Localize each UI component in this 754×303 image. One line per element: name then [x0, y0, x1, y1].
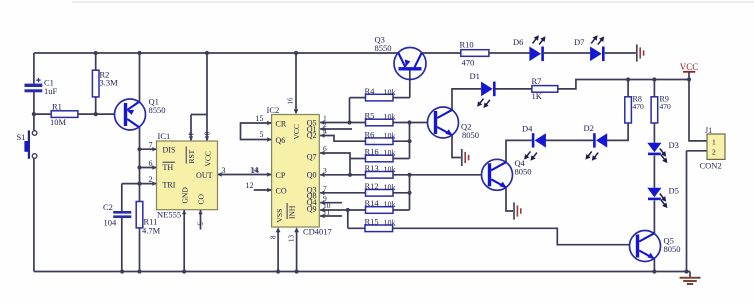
svg-text:13: 13 — [288, 235, 296, 243]
svg-text:D7: D7 — [574, 37, 584, 47]
svg-text:NE555: NE555 — [157, 210, 181, 220]
svg-text:IC2: IC2 — [267, 105, 280, 115]
svg-text:10k: 10k — [384, 131, 396, 140]
svg-text:2: 2 — [149, 175, 153, 184]
svg-text:5: 5 — [196, 222, 204, 226]
svg-text:5: 5 — [260, 130, 264, 139]
svg-text:11: 11 — [323, 207, 330, 216]
svg-text:CR: CR — [276, 119, 287, 128]
svg-text:R10: R10 — [460, 40, 474, 50]
svg-text:3: 3 — [222, 166, 226, 175]
svg-text:CD4017: CD4017 — [303, 227, 332, 237]
svg-text:CP: CP — [276, 171, 286, 180]
svg-text:10k: 10k — [384, 219, 396, 228]
svg-text:8050: 8050 — [462, 130, 479, 140]
svg-text:10k: 10k — [384, 183, 396, 192]
svg-text:Q7: Q7 — [307, 153, 317, 162]
svg-text:R6: R6 — [365, 129, 375, 139]
svg-text:10M: 10M — [50, 117, 67, 127]
svg-text:8050: 8050 — [515, 167, 532, 177]
svg-text:S1: S1 — [17, 132, 26, 142]
svg-text:10k: 10k — [384, 165, 396, 174]
svg-text:GND: GND — [180, 187, 189, 204]
svg-text:R4: R4 — [365, 86, 376, 96]
svg-text:104: 104 — [104, 218, 118, 228]
svg-text:J1: J1 — [705, 126, 712, 135]
svg-text:IC1: IC1 — [158, 131, 171, 141]
svg-text:4.7M: 4.7M — [142, 226, 161, 236]
svg-text:4: 4 — [323, 127, 327, 136]
svg-text:R5: R5 — [365, 111, 375, 121]
svg-text:3: 3 — [323, 166, 327, 175]
svg-text:470: 470 — [660, 102, 672, 111]
svg-text:CO: CO — [197, 193, 206, 204]
svg-text:TH: TH — [163, 163, 174, 172]
svg-text:D1: D1 — [470, 71, 480, 81]
svg-text:10k: 10k — [384, 200, 396, 209]
svg-text:Q9: Q9 — [307, 204, 317, 213]
svg-text:OUT: OUT — [196, 171, 213, 180]
svg-text:VCC: VCC — [292, 124, 301, 139]
svg-text:6: 6 — [149, 159, 153, 168]
svg-text:R14: R14 — [365, 198, 380, 208]
svg-text:3.3M: 3.3M — [100, 78, 119, 88]
svg-text:470: 470 — [633, 102, 645, 111]
svg-text:CO: CO — [276, 186, 287, 195]
svg-text:7: 7 — [323, 184, 327, 193]
svg-text:D4: D4 — [522, 124, 533, 134]
svg-text:D2: D2 — [584, 123, 594, 133]
svg-text:TRI: TRI — [163, 180, 176, 189]
svg-text:8550: 8550 — [149, 105, 166, 115]
svg-text:10k: 10k — [384, 113, 396, 122]
svg-text:8550: 8550 — [375, 43, 392, 53]
svg-text:8050: 8050 — [664, 244, 681, 254]
svg-text:16: 16 — [287, 97, 295, 105]
svg-text:INH: INH — [287, 205, 296, 219]
svg-text:VCC: VCC — [680, 62, 699, 72]
svg-text:8: 8 — [270, 235, 278, 239]
svg-text:D6: D6 — [513, 37, 523, 47]
svg-text:CON2: CON2 — [700, 161, 722, 171]
svg-text:R12: R12 — [365, 181, 379, 191]
svg-text:Q6: Q6 — [276, 136, 286, 145]
svg-text:1: 1 — [712, 137, 716, 146]
svg-text:RST: RST — [187, 149, 196, 163]
svg-text:2: 2 — [712, 147, 716, 156]
svg-text:12: 12 — [246, 181, 254, 190]
svg-text:4: 4 — [187, 132, 195, 136]
svg-text:R7: R7 — [532, 76, 542, 86]
svg-text:D3: D3 — [669, 140, 679, 150]
svg-text:VSS: VSS — [275, 209, 284, 223]
svg-text:470: 470 — [462, 58, 475, 68]
svg-text:14: 14 — [250, 165, 258, 174]
svg-text:7: 7 — [149, 141, 153, 150]
svg-text:VCC: VCC — [203, 151, 212, 166]
svg-text:Q0: Q0 — [307, 170, 317, 179]
svg-text:R13: R13 — [365, 163, 379, 173]
svg-text:D5: D5 — [669, 186, 679, 196]
svg-text:10k: 10k — [384, 149, 396, 158]
svg-text:1uF: 1uF — [44, 86, 58, 96]
svg-text:Q2: Q2 — [307, 131, 317, 140]
svg-text:DIS: DIS — [163, 146, 176, 155]
svg-text:C2: C2 — [103, 202, 113, 212]
svg-text:6: 6 — [323, 144, 327, 153]
svg-text:R16: R16 — [365, 147, 379, 157]
svg-text:10k: 10k — [384, 88, 396, 97]
svg-text:8: 8 — [203, 132, 211, 136]
svg-text:R1: R1 — [52, 102, 62, 112]
svg-text:1K: 1K — [532, 91, 543, 101]
svg-text:R15: R15 — [365, 217, 379, 227]
svg-text:15: 15 — [256, 114, 264, 123]
